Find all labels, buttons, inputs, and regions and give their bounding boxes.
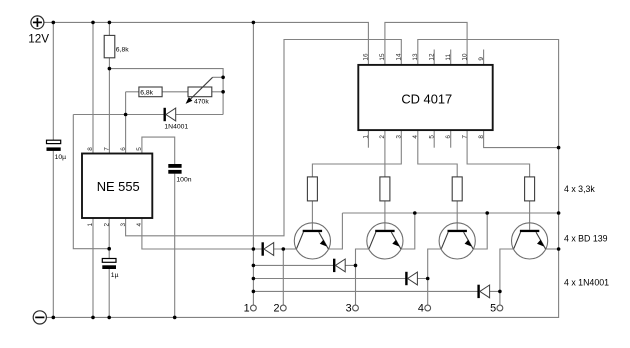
resistor R1 3,3k: [307, 177, 317, 201]
wire diode row: [73, 114, 223, 116]
wire emitter rail: [342, 212, 558, 214]
wire NE555 pin6 column: [125, 92, 127, 154]
svg-text:8: 8: [87, 147, 94, 151]
wire +12V top rail to CD4017 pin 16: [44, 22, 369, 65]
diode D1 1N4001: [262, 242, 274, 255]
svg-text:1: 1: [87, 223, 94, 227]
wire trigger link via left side: [73, 115, 109, 249]
junction +12V / 6,8k: [108, 21, 112, 25]
junction ground / 100n: [173, 316, 177, 320]
stub CD4017 pin 5: [433, 130, 435, 148]
potentiometer wiper arrow: [186, 77, 213, 104]
wire pot right lead: [212, 91, 223, 93]
wire Q3 collector down to row: [428, 249, 442, 279]
junction +12V / 10u: [52, 21, 56, 25]
wire NE555 pin 1 to ground rail: [92, 218, 94, 317]
svg-text:6,8k: 6,8k: [116, 47, 129, 54]
wire terminal 5 column: [499, 291, 501, 305]
diode D2 1N4001: [333, 259, 345, 272]
junction +12V / output column: [252, 21, 256, 25]
svg-text:3: 3: [346, 303, 352, 315]
transistor Q3 BD139: [439, 223, 475, 259]
resistor 6,8k (horizontal, timing): [139, 87, 162, 97]
junction pot right lead: [221, 90, 225, 94]
svg-text:100n: 100n: [176, 176, 191, 183]
diode 1N4001 (astable duty-cycle): [164, 108, 176, 121]
wire diode row 4: [253, 290, 500, 292]
junction D3 / Q3 collector: [426, 277, 430, 281]
junction +12V / pin8: [91, 21, 95, 25]
wire CD4017 pin 7 (Q3) to R4: [467, 130, 529, 177]
svg-text:6: 6: [445, 135, 452, 139]
svg-text:10µ: 10µ: [55, 154, 67, 161]
wire diode row 3: [253, 278, 427, 280]
junction D4 / Q4 collector: [498, 290, 502, 294]
svg-text:8: 8: [478, 135, 485, 139]
supply terminal +12V: [31, 16, 44, 29]
wire Q3 emitter to rail: [473, 213, 487, 249]
svg-text:4: 4: [412, 135, 419, 139]
terminal 1: [251, 305, 257, 311]
wire +12V to resistor 6,8k: [108, 22, 110, 35]
resistor 6,8k (supply to pin 7): [104, 35, 115, 57]
svg-text:7: 7: [104, 147, 111, 151]
wire pot wiper to right column: [213, 76, 224, 78]
transistor Q1 BD139: [294, 223, 330, 259]
IC CD4017 U2: [358, 65, 492, 130]
junction ground / pin1: [91, 316, 95, 320]
diode D4 1N4001: [477, 285, 489, 298]
svg-text:11: 11: [445, 54, 452, 61]
junction CD4017 pin8 / ground column: [557, 146, 561, 150]
wire 100n cap to ground rail: [174, 174, 176, 318]
resistor R4 3,3k: [525, 177, 535, 201]
junction D1 / Q1 collector: [282, 247, 286, 251]
wire Q2 emitter to rail: [401, 213, 415, 249]
wire terminal 4 column: [427, 279, 429, 306]
capacitor 100n: [168, 164, 181, 174]
svg-text:2: 2: [273, 303, 279, 315]
diode D3 1N4001: [405, 272, 417, 285]
junction emitter rail / ground column: [557, 211, 561, 215]
wire Q4 emitter to ground column: [546, 248, 559, 250]
stub CD4017 pin 1: [367, 130, 369, 148]
svg-text:12: 12: [428, 53, 435, 61]
wire 10u cap to ground rail: [52, 151, 54, 318]
wire diode row 2: [253, 264, 355, 266]
wire NE555 pin 5 to 100n cap: [142, 137, 175, 164]
svg-text:9: 9: [478, 57, 485, 61]
junction D2 / Q2 collector: [354, 264, 358, 268]
wire Q4 collector down to row: [500, 249, 514, 291]
svg-text:4 x 1N4001: 4 x 1N4001: [564, 278, 609, 288]
junction +12V column row1: [252, 247, 256, 251]
svg-text:1: 1: [244, 303, 250, 315]
svg-text:12V: 12V: [28, 33, 49, 46]
svg-text:1: 1: [363, 135, 370, 139]
IC NE555 U1: [82, 154, 152, 219]
wire NE555 pin 2 to 1u cap: [108, 218, 110, 259]
svg-text:6: 6: [120, 147, 127, 151]
svg-text:14: 14: [396, 53, 403, 61]
svg-text:7: 7: [461, 135, 468, 139]
wire 6,8k to pot: [162, 91, 188, 93]
wire +12V to 10u cap: [52, 22, 54, 140]
svg-text:3: 3: [396, 135, 403, 139]
wire NE555 pin 4 to +12V column: [142, 218, 254, 249]
terminal 4: [425, 305, 431, 311]
wire R3 to Q3 base: [456, 201, 458, 230]
junction pot wiper: [221, 76, 225, 80]
svg-text:3: 3: [120, 223, 127, 227]
junction 6,8k / pin7 rail: [108, 67, 112, 71]
wire CD4017 pin 13 to ground / ground rail: [46, 40, 558, 318]
wire Q1 emitter to rail: [328, 213, 342, 249]
wire diode row 1 segment: [253, 248, 283, 250]
svg-text:4 x 3,3k: 4 x 3,3k: [564, 184, 595, 194]
wire R4 to Q4 base: [529, 201, 531, 230]
svg-text:1N4001: 1N4001: [164, 124, 188, 131]
svg-text:470k: 470k: [194, 98, 209, 105]
wire CD4017 pin 4 (Q2) to R3: [418, 130, 457, 177]
terminal 3: [353, 305, 359, 311]
junction emitter rail Q2: [413, 211, 417, 215]
svg-text:15: 15: [379, 53, 386, 61]
terminal 2: [280, 305, 286, 311]
stub CD4017 pin 6: [450, 130, 452, 148]
junction ground / 10u: [52, 316, 56, 320]
capacitor 10u electrolytic: [47, 140, 61, 151]
wire chain left lead: [126, 91, 139, 93]
wire CD4017 pin 2 (Q1) to R2: [384, 130, 386, 177]
wire NE555 pin 8 to +12V: [92, 22, 94, 153]
terminal 5: [497, 305, 503, 311]
wire R1 to Q1 base: [311, 201, 313, 230]
wire CD4017 pin 3 (Q0) to R1: [312, 130, 401, 177]
junction +12V column row3: [252, 277, 256, 281]
svg-text:5: 5: [490, 303, 496, 315]
transistor Q4 BD139: [511, 223, 547, 259]
junction ground / 1u: [107, 316, 111, 320]
stub CD4017 pin 11: [450, 50, 452, 65]
svg-text:4: 4: [418, 303, 424, 315]
wire resistor 6,8k to NE555 pin 7: [108, 58, 110, 154]
resistor R2 3,3k: [380, 177, 390, 201]
svg-text:NE 555: NE 555: [97, 179, 140, 194]
svg-text:16: 16: [363, 53, 370, 61]
wire Q1 collector to diode D2 node: [283, 248, 296, 250]
svg-text:CD 4017: CD 4017: [401, 91, 452, 106]
svg-text:2: 2: [379, 135, 386, 139]
svg-text:5: 5: [428, 135, 435, 139]
junction Q4 emitter / ground column: [557, 247, 561, 251]
wire R2 to Q2 base: [384, 201, 386, 230]
wire NE555 pin 3 to CD4017 pin 14 (clock): [126, 40, 402, 236]
junction emitter rail Q3: [485, 211, 489, 215]
wire terminal 2 column: [282, 249, 284, 305]
resistor R3 3,3k: [452, 177, 462, 201]
svg-text:13: 13: [412, 53, 419, 61]
ground terminal (minus): [33, 311, 46, 324]
wire CD4017 pin15-pin10 reset loop: [385, 22, 467, 65]
svg-text:6,8k: 6,8k: [140, 89, 153, 96]
wire Q2 collector down to row: [356, 249, 370, 265]
stub CD4017 pin 12: [433, 50, 435, 65]
junction pin2 / 1u cap: [107, 247, 111, 251]
transistor Q2 BD139: [367, 223, 403, 259]
svg-text:4 x BD 139: 4 x BD 139: [564, 234, 608, 244]
wire pin7 node rail to pot column: [109, 69, 223, 115]
junction +12V column row4: [252, 290, 256, 294]
svg-text:1µ: 1µ: [111, 272, 119, 279]
svg-text:10: 10: [461, 53, 468, 61]
potentiometer 470k: [188, 87, 212, 97]
wire 1u cap to ground rail: [108, 269, 110, 318]
capacitor 1u electrolytic: [102, 259, 116, 270]
junction +12V column row2: [252, 264, 256, 268]
wire terminal 3 column: [355, 265, 357, 305]
wire CD4017 pin 8 (GND) to ground column: [484, 130, 559, 148]
wire +12V column to terminal 1: [252, 22, 254, 305]
stub CD4017 pin 9: [483, 50, 485, 65]
svg-text:5: 5: [136, 147, 143, 151]
svg-text:2: 2: [103, 223, 110, 227]
svg-text:4: 4: [136, 223, 143, 227]
junction pin6 / diode row: [124, 113, 128, 117]
